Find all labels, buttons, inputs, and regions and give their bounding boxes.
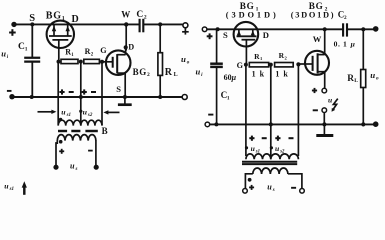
svg-text:L: L [354,78,358,84]
svg-text:s1: s1 [9,187,14,192]
svg-text:B: B [309,1,315,11]
svg-text:2: 2 [344,15,347,21]
svg-text:L: L [174,72,178,78]
svg-text:(3DO1D): (3DO1D) [291,11,335,20]
svg-text:60: 60 [224,73,232,82]
svg-text:2: 2 [147,72,150,78]
svg-text:u: u [4,181,9,190]
svg-text:s1: s1 [66,113,71,118]
svg-text:0. 1: 0. 1 [334,39,348,48]
svg-text:B: B [240,1,246,11]
svg-text:S: S [116,84,121,94]
svg-text:u: u [83,108,88,117]
svg-text:G: G [100,46,107,55]
svg-text:G: G [53,10,61,21]
svg-text:u: u [196,67,201,77]
svg-text:1: 1 [62,16,65,22]
svg-text:μ: μ [350,39,355,48]
svg-text:R: R [65,48,71,57]
svg-text:1 k: 1 k [252,70,265,79]
svg-text:1: 1 [227,95,230,101]
svg-text:R: R [347,74,354,84]
svg-text:1 k: 1 k [275,70,288,79]
svg-text:s2: s2 [87,113,93,118]
svg-text:u: u [70,161,75,170]
svg-text:W: W [313,34,322,44]
svg-text:u: u [251,144,255,153]
svg-text:(3DO1D): (3DO1D) [226,11,279,20]
svg-text:u: u [267,183,272,192]
svg-text:1: 1 [25,46,28,52]
svg-text:u: u [61,108,66,117]
svg-text:D: D [128,43,134,52]
svg-text:s: s [272,188,275,193]
svg-text:R: R [165,67,173,78]
svg-text:2: 2 [144,14,147,20]
svg-text:μ: μ [231,73,237,82]
svg-text:S: S [29,13,35,24]
svg-text:o: o [187,60,190,66]
svg-text:s: s [75,167,78,172]
svg-text:B: B [102,126,108,136]
svg-text:G: G [316,1,323,11]
svg-text:u: u [328,95,332,104]
svg-text:D: D [72,14,79,25]
svg-text:D: D [263,30,269,40]
svg-text:W: W [121,9,130,19]
svg-text:G: G [247,1,254,11]
svg-text:u: u [370,70,375,80]
svg-text:B: B [46,10,53,21]
svg-text:G: G [237,61,244,70]
svg-text:u: u [181,54,186,64]
svg-text:C: C [136,10,143,20]
svg-text:u: u [1,49,6,59]
svg-text:R: R [85,47,91,56]
svg-text:u: u [275,144,279,153]
svg-text:o: o [376,76,379,82]
svg-text:G: G [139,67,146,77]
svg-text:B: B [133,67,139,77]
svg-text:S: S [223,30,228,40]
